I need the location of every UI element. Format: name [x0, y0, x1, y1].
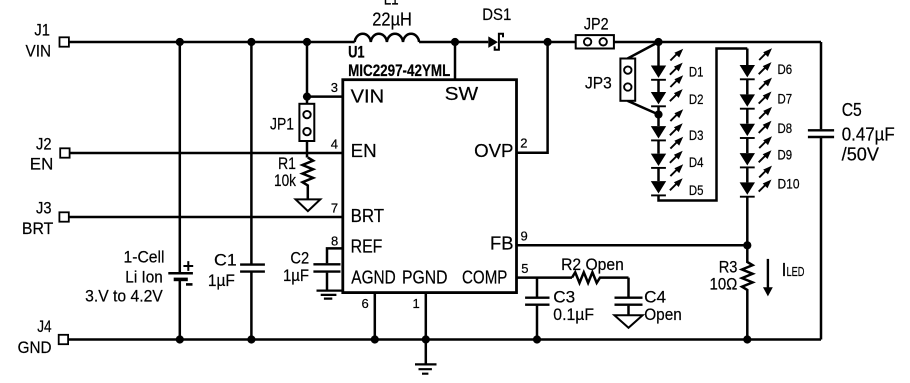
svg-text:EN: EN: [351, 141, 377, 161]
svg-text:JP1: JP1: [270, 114, 294, 133]
svg-text:VIN: VIN: [351, 86, 385, 106]
svg-text:4: 4: [331, 137, 338, 152]
svg-text:LED: LED: [787, 265, 805, 279]
svg-text:9: 9: [521, 229, 528, 244]
svg-text:J2: J2: [36, 134, 52, 153]
svg-text:C4: C4: [644, 288, 666, 307]
svg-text:/50V: /50V: [842, 144, 879, 164]
svg-text:DS1: DS1: [482, 5, 511, 24]
svg-text:10k: 10k: [274, 171, 296, 190]
svg-text:JP2: JP2: [584, 15, 609, 34]
svg-text:7: 7: [331, 200, 338, 215]
svg-text:BRT: BRT: [351, 206, 385, 226]
svg-text:D8: D8: [778, 120, 793, 136]
svg-text:0.47µF: 0.47µF: [842, 124, 895, 144]
svg-text:6: 6: [362, 296, 369, 311]
svg-text:D1: D1: [689, 64, 704, 80]
svg-text:C5: C5: [842, 100, 862, 120]
svg-text:MIC2297-42YML: MIC2297-42YML: [348, 62, 450, 80]
svg-text:C3: C3: [553, 288, 575, 307]
svg-text:GND: GND: [18, 338, 52, 357]
svg-text:D2: D2: [689, 91, 704, 107]
svg-text:D10: D10: [778, 176, 800, 192]
svg-text:D3: D3: [689, 127, 704, 143]
svg-text:1: 1: [413, 296, 420, 311]
svg-text:3: 3: [331, 80, 338, 95]
svg-text:U1: U1: [348, 44, 365, 62]
svg-text:1µF: 1µF: [208, 271, 235, 290]
svg-text:Open: Open: [644, 305, 682, 324]
svg-text:2: 2: [520, 136, 527, 151]
svg-text:L1: L1: [384, 0, 399, 9]
svg-text:BRT: BRT: [22, 219, 53, 238]
svg-text:JP3: JP3: [585, 73, 612, 92]
svg-text:Li Ion: Li Ion: [125, 268, 163, 287]
svg-text:EN: EN: [30, 155, 54, 174]
svg-text:VIN: VIN: [26, 41, 52, 60]
svg-text:D6: D6: [778, 61, 793, 77]
svg-text:D4: D4: [689, 154, 704, 170]
svg-text:J3: J3: [36, 199, 52, 218]
svg-text:D5: D5: [689, 182, 704, 198]
svg-text:8: 8: [331, 234, 338, 249]
svg-text:3.V to 4.2V: 3.V to 4.2V: [85, 287, 163, 306]
svg-text:R2 Open: R2 Open: [561, 255, 624, 274]
svg-text:OVP: OVP: [474, 141, 513, 161]
svg-text:SW: SW: [445, 84, 479, 104]
svg-text:C1: C1: [214, 251, 237, 270]
svg-text:22µH: 22µH: [372, 10, 412, 30]
svg-text:PGND: PGND: [402, 268, 448, 288]
svg-text:AGND: AGND: [351, 268, 396, 288]
svg-text:FB: FB: [490, 234, 514, 254]
svg-text:C2: C2: [290, 248, 309, 267]
svg-text:5: 5: [521, 261, 528, 276]
svg-text:COMP: COMP: [462, 268, 507, 288]
svg-text:10Ω: 10Ω: [710, 274, 738, 293]
svg-text:J1: J1: [34, 21, 50, 40]
svg-text:J4: J4: [37, 317, 51, 336]
svg-text:REF: REF: [351, 236, 383, 256]
svg-text:D7: D7: [778, 91, 793, 107]
svg-text:D9: D9: [778, 147, 793, 163]
svg-text:R1: R1: [278, 154, 296, 173]
svg-text:1-Cell: 1-Cell: [124, 247, 165, 266]
svg-text:0.1µF: 0.1µF: [553, 305, 594, 324]
svg-text:1µF: 1µF: [283, 266, 309, 285]
